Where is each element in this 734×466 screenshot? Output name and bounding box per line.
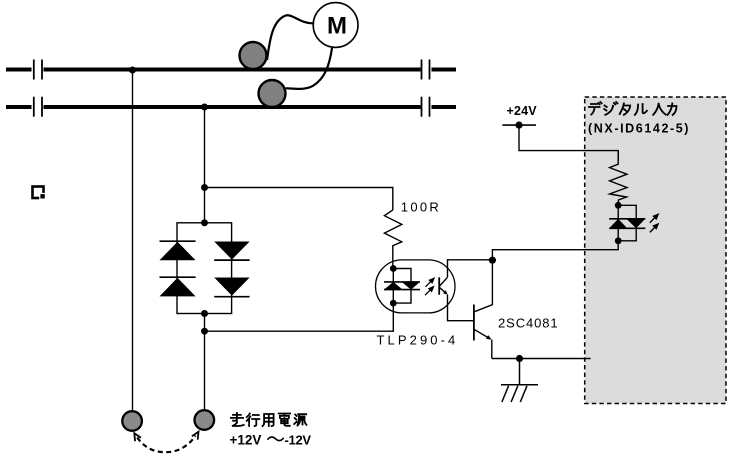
node ground junction (516, 355, 523, 362)
diode D3 (bridge right top) (214, 242, 249, 261)
svg-text:2SC4081: 2SC4081 (498, 316, 559, 331)
TLP light emission arrows (425, 278, 434, 295)
object anchor icon (33, 187, 46, 200)
diode D4 (bridge right bottom) (214, 278, 249, 297)
glyph de (589, 102, 602, 115)
module LED bypass loop (618, 205, 636, 241)
bottom rail (track) (6, 105, 456, 109)
svg-text:TLP290-4: TLP290-4 (377, 333, 459, 348)
label +12V ~ -12V (230, 433, 312, 448)
glyph ta (620, 104, 631, 115)
svg-text:+12V: +12V (230, 433, 262, 448)
module internal resistor (610, 151, 627, 206)
node at branch to 100R (201, 184, 208, 191)
glyph you (use) (263, 414, 274, 426)
label digital input title (katakana) (589, 102, 677, 115)
label 2SC4081 (498, 316, 559, 331)
node +24V (515, 122, 522, 129)
svg-text:100R: 100R (401, 200, 441, 215)
diode D1 (bridge left top) (160, 241, 196, 260)
wire bottom rail down to bridge (204, 107, 206, 223)
glyph den (electricity) (279, 414, 290, 426)
left power terminal (122, 411, 142, 431)
wheel W2 on bottom rail (259, 80, 286, 107)
node on bottom rail (201, 104, 208, 111)
+24V supply terminal (502, 104, 537, 125)
svg-text:M: M (327, 13, 347, 40)
svg-text:+24V: +24V (507, 104, 538, 118)
glyph sou (run) (231, 413, 244, 426)
bottom rail right insulated gap ticks (422, 97, 430, 117)
label 100R (401, 200, 441, 215)
glyph nyuu (653, 104, 665, 115)
TLP input LED pair (anti-parallel) (384, 282, 420, 290)
wire branch to 100R resistor (205, 188, 393, 211)
node on top rail (129, 67, 136, 74)
wire wheel W1 to motor (267, 15, 313, 60)
right power terminal (195, 410, 215, 430)
wire bridge bottom to right power terminal (204, 314, 206, 410)
svg-text:(NX-ID6142-5): (NX-ID6142-5) (588, 122, 690, 136)
wheel W1 on top rail (240, 42, 267, 69)
resistor 100R (384, 210, 401, 269)
wire top rail to left power terminal (132, 70, 134, 412)
wire motor to wheel W2 (286, 48, 332, 89)
wire TLP collector to node (448, 260, 493, 278)
label running power supply (kanji) (231, 413, 307, 426)
module LED emission arrows (650, 214, 658, 232)
bridge rectifier frame (177, 223, 232, 314)
wire emitter to digital input common (492, 358, 591, 360)
bottom rail left insulated gap ticks (34, 97, 42, 117)
wire TLP emitter to transistor base (448, 295, 474, 321)
optocoupler U1 TLP290-4 body (376, 260, 456, 313)
node collector junction (489, 257, 496, 264)
glyph ru (635, 104, 647, 115)
svg-text:-12V: -12V (285, 433, 312, 448)
glyph gen (source) (294, 414, 306, 425)
top rail right insulated gap ticks (422, 60, 430, 80)
digital input module panel (NX-ID6142-5) (585, 97, 726, 404)
polarity swap dashed arrow (134, 432, 198, 453)
wire optocoupler LED return (205, 303, 394, 331)
transistor Q1 2SC4081 (474, 260, 493, 358)
node TLP LED cathode (390, 300, 397, 307)
TLP input bypass loop (393, 269, 411, 304)
top rail (track) (6, 68, 456, 72)
motor M (313, 3, 358, 48)
label (NX-ID6142-5) (588, 122, 690, 136)
node module LED anode (615, 202, 622, 209)
glyph kou (go) (247, 414, 259, 427)
top rail left insulated gap ticks (34, 60, 42, 80)
wire +24V to module resistor (519, 125, 618, 160)
node bridge bottom (201, 310, 208, 317)
module LED pair (anti-parallel) (609, 219, 645, 229)
diode D2 (bridge left bottom) (160, 277, 196, 296)
node module LED cathode (615, 237, 622, 244)
node TLP LED anode (390, 265, 397, 272)
node bridge top (201, 219, 208, 226)
TLP phototransistor (439, 277, 448, 295)
node at branch to optocoupler return (201, 328, 208, 335)
ground (501, 359, 538, 403)
glyph ryoku (668, 103, 677, 115)
glyph ji (604, 102, 617, 115)
label TLP290-4 (377, 333, 459, 348)
wire node to digital input (492, 241, 618, 260)
